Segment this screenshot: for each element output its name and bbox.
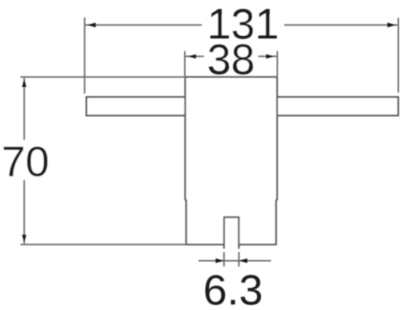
- dimension 6.3 arrow left (points right at notch): [216, 258, 224, 263]
- body bottom edge left segment: [185, 244, 224, 246]
- svg-text:38: 38: [207, 36, 255, 84]
- horizontal bar (handle): [86, 97, 398, 116]
- dimension 6.3 extension line right: [238, 252, 240, 267]
- dimension 6.3 arrow right (points left at notch): [239, 258, 247, 263]
- dimension 70 extension line top: [21, 76, 185, 78]
- dimension 6.3 line: [199, 260, 272, 262]
- white halo for 38 text: [204, 46, 258, 66]
- dimension 38 arrow right: [266, 54, 274, 58]
- body bottom edge right segment: [239, 244, 277, 246]
- dimension 38 extension line left: [184, 51, 186, 76]
- svg-text:6.3: 6.3: [203, 266, 263, 310]
- dimension 6.3 extension line left: [223, 252, 225, 267]
- dimension 131 extension line left: [84, 18, 86, 94]
- dimension 131 line: [85, 24, 398, 26]
- dimension 38 line: [185, 55, 276, 57]
- dimension 70 extension line bottom: [21, 244, 186, 246]
- white halo for 70 text: [0, 140, 49, 180]
- dimension 131 arrow left: [88, 23, 96, 28]
- svg-text:70: 70: [2, 138, 50, 186]
- dimension 38 arrow left: [188, 54, 196, 58]
- dimension 70 arrow top: [22, 79, 26, 87]
- dimension 131 arrow right: [387, 23, 395, 28]
- dimension 131 extension line right: [397, 18, 399, 93]
- white halo for 131 text: [202, 15, 284, 35]
- dimension 70 arrow bottom: [22, 235, 26, 243]
- bottom notch: [224, 217, 239, 249]
- main body outline: [185, 77, 277, 245]
- dimension 38 extension line right: [276, 51, 278, 76]
- dimension 70 line: [23, 78, 25, 244]
